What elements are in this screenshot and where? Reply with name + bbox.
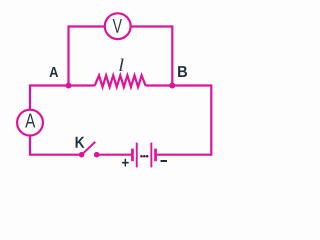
switch K blade: [82, 142, 95, 154]
node A dot: [66, 83, 72, 89]
node B label: [178, 66, 187, 77]
ammeter label A: [25, 114, 35, 128]
wire: battery to bottom-right corner up to node B: [157, 86, 211, 155]
wire: voltmeter branch right (voltmeter right, down to node B): [131, 27, 172, 87]
battery plate: tall thin (left): [136, 143, 138, 168]
wire: ammeter to bottom-left corner to switch: [30, 136, 81, 155]
wire: switch to battery: [97, 154, 132, 156]
switch K contact dot right: [94, 152, 100, 158]
node A label: [50, 67, 59, 77]
wire: voltmeter branch left (node A up, right to voltmeter): [69, 27, 105, 87]
battery label -: [161, 160, 168, 162]
label K: [76, 137, 85, 148]
battery label +: [122, 159, 129, 167]
node B dot: [169, 83, 175, 89]
wire: node A left to top-left corner down to ammeter: [30, 86, 70, 110]
resistor label l: [119, 59, 123, 72]
switch K contact dot left: [79, 152, 85, 158]
voltmeter label V: [113, 19, 122, 33]
wire: node A to resistor: [69, 84, 95, 86]
battery plate: short thick (right): [154, 149, 157, 162]
ammeter A1 circle: [17, 110, 43, 136]
resistor (resistance wire) l zigzag: [95, 75, 146, 87]
wire: resistor to node B: [146, 84, 173, 86]
voltmeter V1 circle: [105, 13, 131, 39]
battery plate: short thick (left): [131, 149, 134, 162]
battery dots ... (more cells): [140, 155, 143, 158]
battery plate: tall thin (right): [150, 143, 152, 168]
